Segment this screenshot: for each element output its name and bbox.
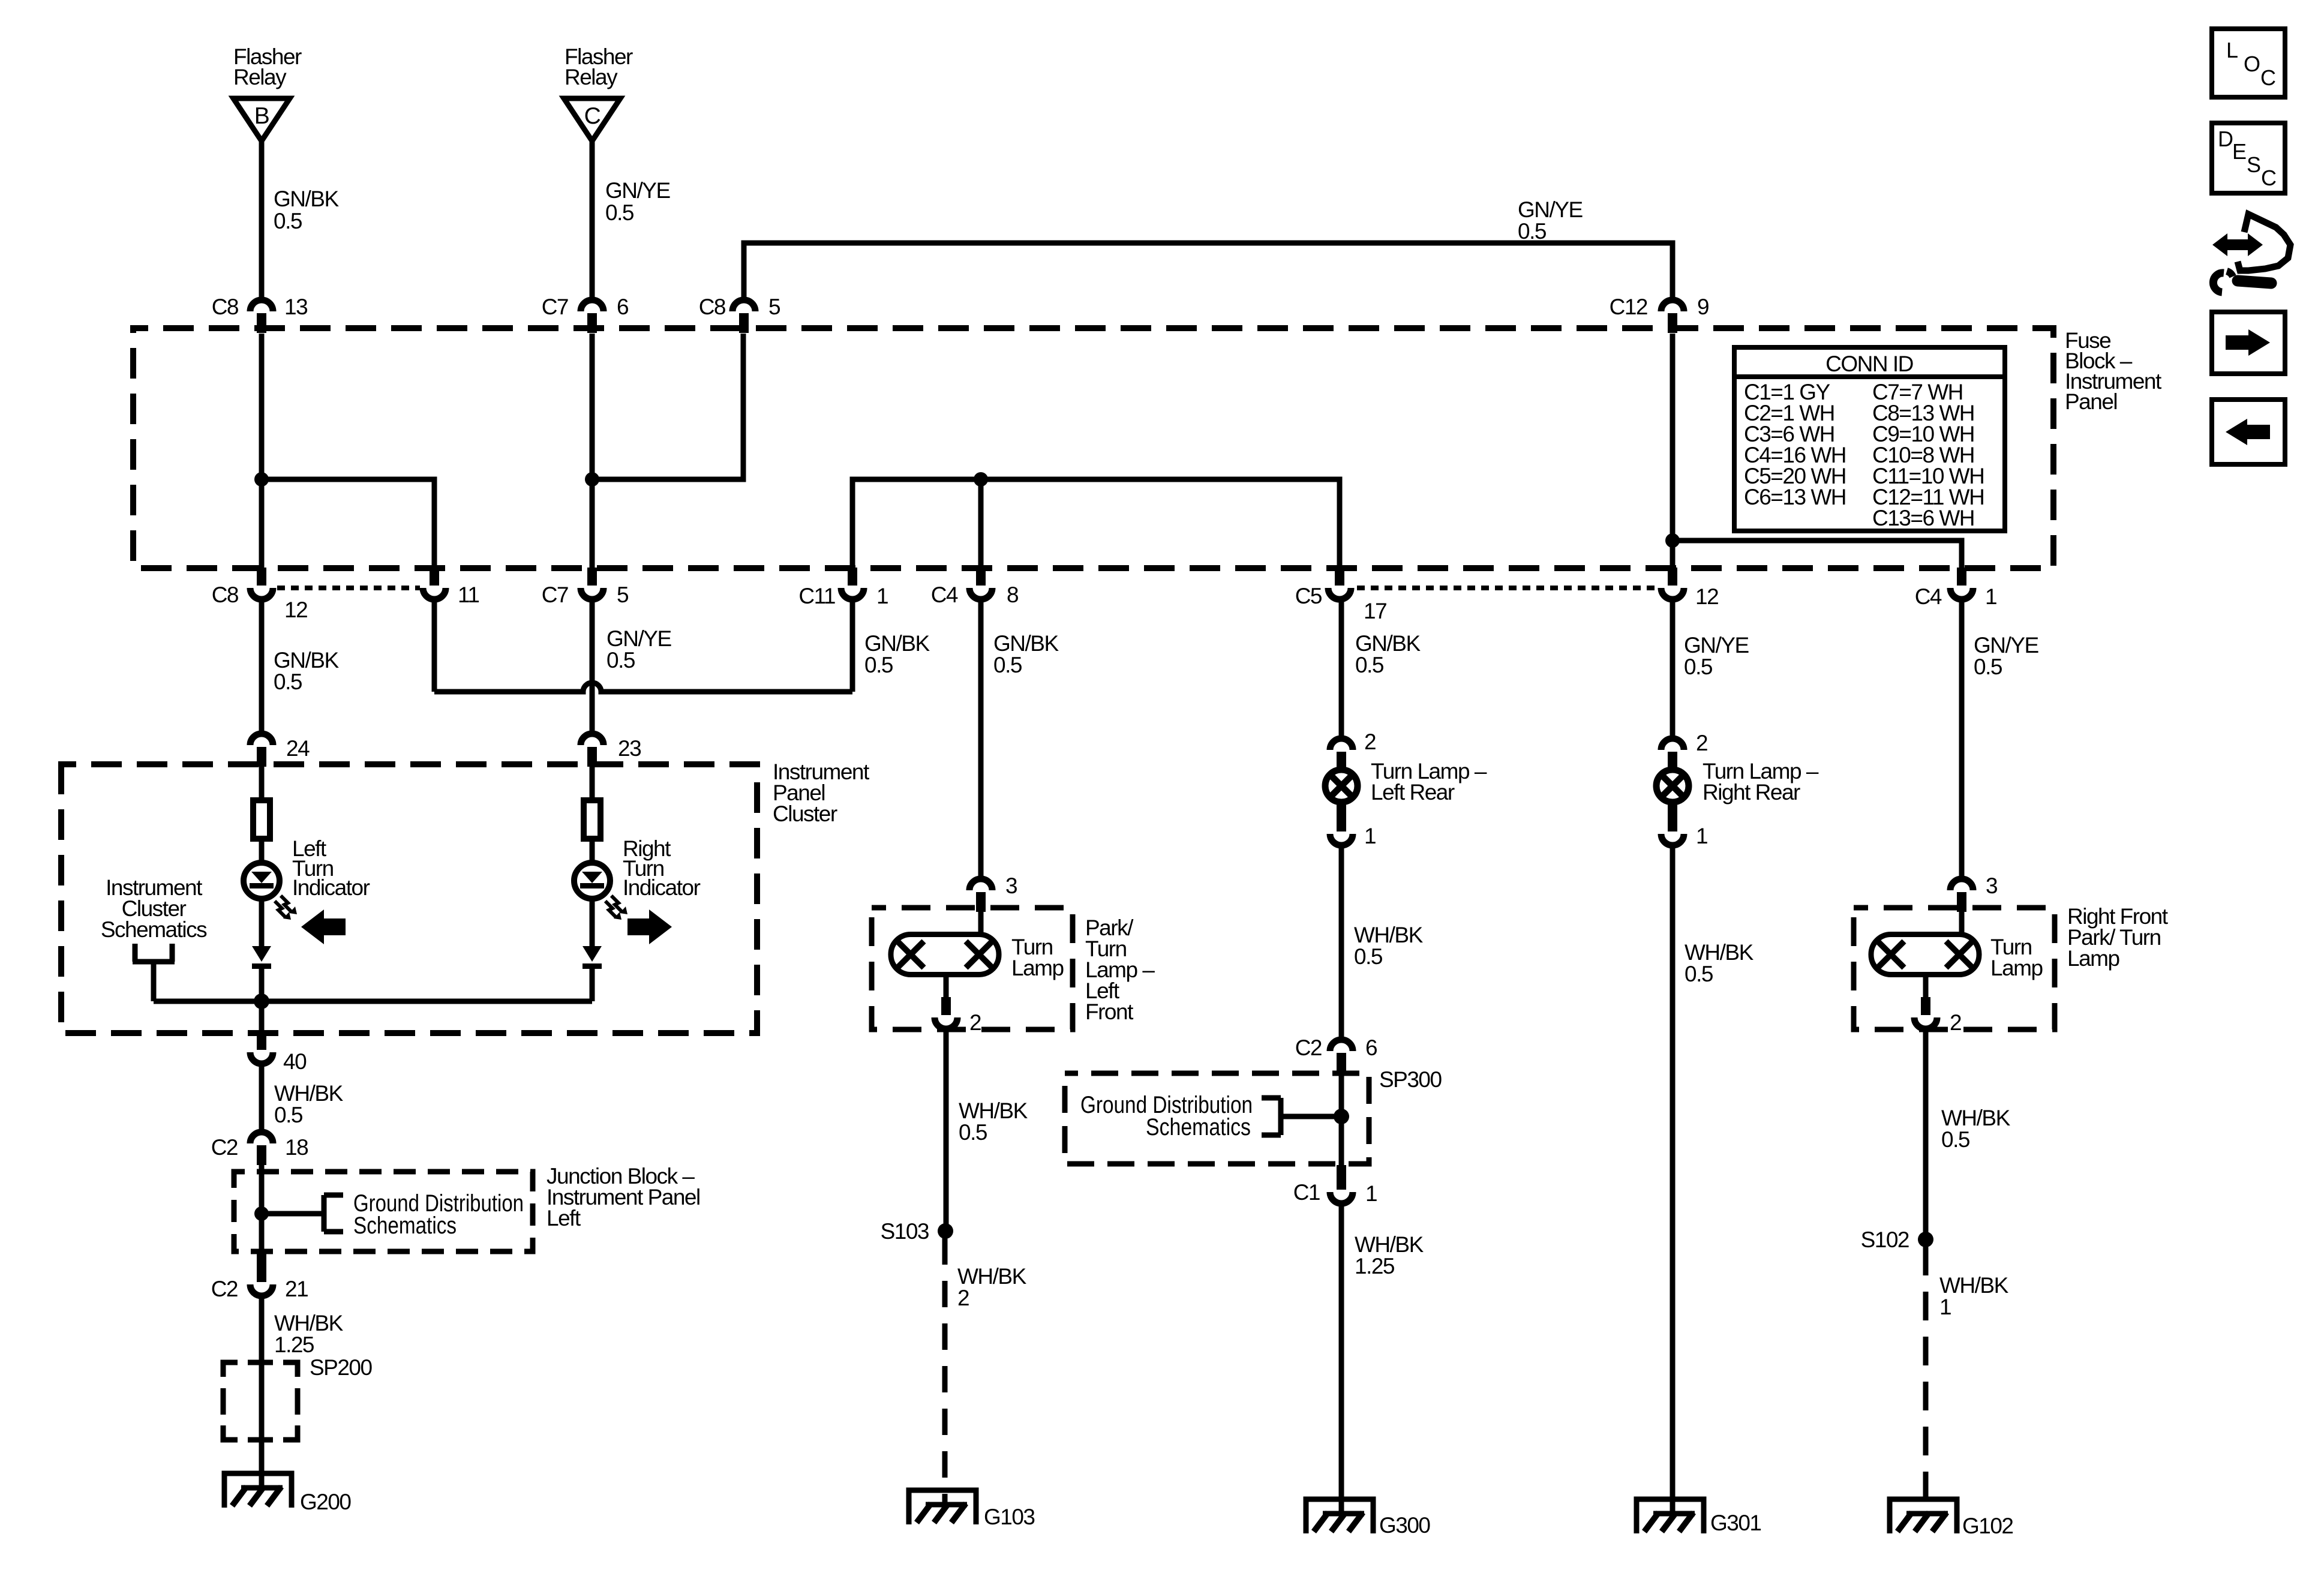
svg-text:Relay: Relay	[233, 65, 287, 89]
svg-text:D: D	[2218, 127, 2233, 151]
node junction on C8 column	[254, 472, 269, 487]
node splice S102	[1918, 1232, 1933, 1247]
svg-text:0.5: 0.5	[1685, 962, 1713, 986]
svg-text:S103: S103	[881, 1219, 929, 1244]
svg-text:C6=13 WH: C6=13 WH	[1744, 485, 1846, 509]
svg-text:0.5: 0.5	[1941, 1127, 1970, 1152]
svg-text:0.5: 0.5	[274, 209, 302, 233]
wire through junction block	[259, 1161, 265, 1254]
svg-text:3: 3	[1005, 873, 1017, 898]
node cluster bus junction	[254, 993, 269, 1009]
resistor right-turn	[584, 800, 600, 839]
connector pin 3 (left front)	[969, 879, 992, 890]
wire bracket stem	[151, 962, 157, 1001]
arrow left (turn direction)	[301, 909, 346, 944]
connector C7 pin 6	[581, 300, 603, 311]
wire lamp right front bottom	[1923, 977, 1929, 998]
node junction on C4 column	[974, 472, 988, 487]
connector pin 11	[430, 568, 439, 586]
svg-text:GN/BK: GN/BK	[274, 648, 339, 673]
turn lamp left rear bulb	[1325, 770, 1358, 802]
svg-text:WH/BK: WH/BK	[1939, 1273, 2009, 1298]
svg-text:C: C	[584, 103, 600, 129]
svg-text:WH/BK: WH/BK	[274, 1081, 344, 1106]
node splice S103	[938, 1223, 953, 1239]
ground G301	[1637, 1499, 1704, 1533]
connector pin 2 (right rear)	[1661, 739, 1684, 750]
park/turn lamp right front dashed box	[1854, 908, 2055, 1029]
svg-text:E: E	[2232, 139, 2246, 164]
LED right turn indicator	[574, 863, 610, 899]
svg-text:17: 17	[1364, 599, 1386, 623]
svg-text:GN/YE: GN/YE	[1974, 633, 2038, 658]
connector C2 pin 21	[257, 1251, 266, 1282]
wire fuse-block col C7-6/5	[590, 334, 595, 568]
connector C7 pin 5	[587, 568, 597, 586]
flasher relay C triangle	[564, 98, 620, 141]
svg-text:Left Rear: Left Rear	[1371, 780, 1455, 804]
svg-text:Right Rear: Right Rear	[1703, 780, 1800, 804]
svg-text:C7: C7	[542, 583, 568, 607]
svg-text:0.5: 0.5	[606, 648, 635, 673]
svg-text:C: C	[2261, 166, 2276, 190]
svg-text:1: 1	[1696, 824, 1707, 848]
wire pin3 into right lamp	[1959, 909, 1965, 935]
svg-text:2: 2	[957, 1286, 969, 1310]
wire pin11 drop	[432, 601, 437, 692]
svg-text:WH/BK: WH/BK	[957, 1264, 1027, 1289]
svg-text:8: 8	[1007, 583, 1018, 607]
dotted connector link C5-17 to 12	[1357, 586, 1656, 590]
node junction on C12 column	[1665, 533, 1680, 548]
svg-text:GN/BK: GN/BK	[993, 631, 1059, 656]
junction block dashed box	[234, 1172, 533, 1251]
wire right rear to G301	[1670, 847, 1676, 1514]
connector pin 40	[257, 1032, 266, 1050]
wire resistor to LED right	[590, 839, 595, 864]
turn lamp right rear bulb	[1656, 770, 1689, 802]
wire GN/YE from flasher C	[590, 141, 595, 299]
bracket ground distribution (SP300)	[1262, 1098, 1281, 1135]
wire C5-17 to lamp	[1339, 601, 1344, 736]
svg-text:0.5: 0.5	[1518, 219, 1547, 244]
svg-text:C: C	[2260, 65, 2275, 90]
svg-text:C8: C8	[699, 295, 725, 319]
svg-text:C5: C5	[1295, 584, 1322, 608]
svg-text:13: 13	[284, 295, 307, 319]
wire LED left to diode	[259, 897, 265, 946]
turn lamp left front stadium	[891, 935, 999, 975]
svg-text:1: 1	[876, 584, 888, 608]
wire fuse-block bus C11-C4-C5	[852, 479, 1340, 568]
connector pin 23	[581, 734, 603, 745]
svg-text:1: 1	[1939, 1295, 1951, 1319]
connector C5 pin 17	[1335, 568, 1344, 586]
park/turn lamp left front dashed box	[872, 908, 1073, 1029]
wire tap to bracket	[262, 1211, 324, 1217]
wire C7-5 to pin 23	[590, 601, 595, 732]
turn lamp right front stadium	[1871, 935, 1979, 975]
svg-text:0.5: 0.5	[1355, 653, 1384, 677]
icon hand/adjust	[2212, 233, 2263, 256]
svg-text:6: 6	[1365, 1035, 1377, 1060]
svg-text:0.5: 0.5	[274, 1103, 303, 1127]
svg-text:Cluster: Cluster	[773, 801, 837, 826]
connector pin 3 (right front)	[1950, 879, 1973, 890]
connector C11 pin 1	[848, 568, 857, 586]
svg-text:C8: C8	[212, 583, 238, 607]
svg-text:G300: G300	[1379, 1513, 1430, 1538]
wire C4-8 to pin 3	[978, 601, 984, 876]
svg-text:0.5: 0.5	[1684, 655, 1713, 679]
svg-text:SP300: SP300	[1379, 1067, 1442, 1092]
svg-text:0.5: 0.5	[993, 653, 1022, 677]
wire diode right to bus	[590, 968, 595, 1001]
svg-text:C8: C8	[212, 295, 238, 319]
svg-text:C13=6 WH: C13=6 WH	[1872, 506, 1974, 530]
connector C4 pin 8	[976, 568, 986, 586]
wire cluster ground bus	[154, 999, 592, 1004]
CONN ID table	[1734, 347, 2005, 531]
icon arrow-right box	[2212, 312, 2285, 374]
wire diode left to bus	[259, 968, 265, 1033]
svg-text:0.5: 0.5	[1974, 655, 2002, 679]
connector pin 2 (left front)	[941, 997, 951, 1015]
wire branch to pin 11	[262, 479, 434, 568]
svg-text:0.5: 0.5	[864, 653, 893, 677]
svg-text:5: 5	[768, 295, 780, 319]
ground G300	[1306, 1499, 1373, 1533]
svg-text:C2: C2	[211, 1135, 238, 1160]
diode right	[582, 946, 602, 962]
svg-text:WH/BK: WH/BK	[274, 1311, 344, 1335]
svg-text:Schematics: Schematics	[353, 1212, 457, 1239]
svg-text:G301: G301	[1710, 1511, 1761, 1535]
dotted connector link C8-12 to 11	[277, 586, 420, 590]
wire SP300 tap to bracket	[1281, 1114, 1341, 1119]
svg-text:C4: C4	[1915, 584, 1942, 609]
svg-text:WH/BK: WH/BK	[1354, 923, 1424, 947]
connector C8 pin 5	[732, 300, 755, 311]
svg-text:0.5: 0.5	[1354, 944, 1383, 969]
LED left light rays	[281, 896, 292, 912]
ground G200	[224, 1473, 292, 1508]
resistor left-turn	[253, 800, 270, 839]
splice SP300 dashed box	[1065, 1073, 1369, 1164]
svg-text:C2: C2	[211, 1277, 238, 1301]
svg-text:O: O	[2244, 52, 2260, 76]
wire S103 to G103 dashed	[942, 1238, 948, 1505]
arrow right (turn direction)	[627, 909, 672, 944]
ground G102	[1890, 1499, 1957, 1533]
wire branch to pin C8-5	[592, 334, 743, 479]
svg-text:C12: C12	[1610, 295, 1647, 319]
wire through SP300	[1339, 1071, 1344, 1165]
ground G103	[909, 1490, 976, 1524]
connector C2 pin 6	[1330, 1040, 1353, 1051]
svg-text:GN/YE: GN/YE	[605, 178, 670, 203]
splice SP200 dashed box	[223, 1362, 298, 1440]
wire 40 to C2-18	[259, 1065, 265, 1130]
flasher relay B triangle	[233, 98, 290, 141]
svg-text:11: 11	[458, 583, 479, 607]
svg-text:18: 18	[285, 1135, 308, 1160]
svg-text:12: 12	[284, 598, 307, 622]
connector pin 2 (left rear)	[1330, 739, 1353, 750]
svg-text:1: 1	[1985, 584, 1996, 609]
connector C1 pin 1	[1337, 1165, 1346, 1190]
wire GN/YE top jumper	[744, 243, 1673, 299]
connector C2 pin 18	[250, 1132, 273, 1143]
svg-text:24: 24	[286, 736, 310, 761]
pin stub above left rear bulb	[1337, 752, 1346, 771]
svg-text:CONN ID: CONN ID	[1825, 352, 1913, 376]
wire C1-1 to G300	[1339, 1205, 1344, 1514]
svg-text:2: 2	[1950, 1010, 1961, 1035]
wire pin23 to resistor	[590, 767, 595, 800]
svg-text:C7: C7	[542, 295, 568, 319]
svg-text:C2: C2	[1295, 1035, 1322, 1060]
svg-text:2: 2	[969, 1010, 981, 1035]
wire S102 to G102 dashed	[1923, 1247, 1929, 1512]
wire pin12 to lamp	[1670, 601, 1676, 736]
wire lamp left front bottom	[944, 977, 949, 998]
svg-text:GN/BK: GN/BK	[864, 631, 930, 656]
svg-text:Schematics: Schematics	[1146, 1114, 1251, 1140]
svg-text:5: 5	[617, 583, 629, 607]
svg-text:0.5: 0.5	[605, 200, 634, 225]
node junction block tap	[254, 1206, 269, 1221]
svg-text:C1: C1	[1293, 1180, 1320, 1205]
connector pin 12 (right)	[1668, 568, 1677, 586]
LED right light rays	[611, 896, 622, 912]
svg-text:WH/BK: WH/BK	[1355, 1232, 1424, 1257]
svg-text:1.25: 1.25	[1355, 1254, 1395, 1278]
wire resistor to LED left	[259, 839, 265, 864]
svg-text:S102: S102	[1861, 1227, 1909, 1252]
wire LED right to diode	[590, 897, 595, 946]
svg-text:Lamp: Lamp	[2067, 946, 2119, 971]
svg-text:WH/BK: WH/BK	[959, 1098, 1028, 1123]
wire pin2 to S102	[1923, 1031, 1929, 1232]
svg-text:1: 1	[1365, 1181, 1377, 1206]
fuse block - instrument panel dashed box	[133, 328, 2053, 568]
connector C12 pin 9	[1661, 300, 1684, 311]
svg-text:9: 9	[1697, 295, 1709, 319]
connector pin 1 (right rear)	[1668, 801, 1677, 831]
diode left	[252, 946, 271, 962]
svg-text:WH/BK: WH/BK	[1685, 940, 1754, 965]
svg-text:2: 2	[1696, 731, 1707, 755]
connector C8 pin 12	[257, 568, 266, 586]
svg-text:GN/YE: GN/YE	[1518, 197, 1583, 222]
svg-text:Left: Left	[547, 1206, 581, 1230]
connector pin 24	[250, 734, 273, 745]
svg-text:C11: C11	[798, 584, 835, 608]
svg-text:G102: G102	[1962, 1514, 2013, 1538]
wire C4-1 to pin 3	[1959, 601, 1965, 876]
svg-text:40: 40	[283, 1049, 307, 1074]
svg-text:S: S	[2247, 152, 2260, 177]
instrument panel cluster dashed box	[61, 764, 757, 1033]
svg-text:1.25: 1.25	[274, 1332, 314, 1357]
wire GN/BK from flasher B	[259, 141, 265, 299]
wire pin24 to resistor	[259, 767, 265, 800]
svg-text:C4: C4	[931, 583, 958, 607]
svg-text:3: 3	[1986, 873, 1997, 898]
connector pin 1 (left rear)	[1337, 801, 1346, 831]
connector pin 2 (right front)	[1921, 997, 1930, 1015]
svg-text:GN/BK: GN/BK	[274, 187, 339, 211]
LED left turn indicator	[244, 863, 280, 899]
wire C11-1 drop	[850, 601, 855, 692]
wire pin2 to S103	[944, 1031, 949, 1231]
wire C8-12 to pin 24	[259, 601, 265, 732]
svg-text:0.5: 0.5	[274, 670, 302, 694]
wire fuse-block col C12-9/12	[1670, 334, 1676, 568]
svg-text:6: 6	[617, 295, 628, 319]
wire pin3 into lamp	[978, 909, 984, 935]
wire branch to pin C4-1	[1673, 541, 1962, 568]
svg-text:Indicator: Indicator	[292, 875, 370, 900]
svg-text:G103: G103	[984, 1505, 1035, 1529]
svg-text:SP200: SP200	[310, 1355, 373, 1380]
svg-text:Lamp: Lamp	[1990, 956, 2043, 980]
svg-text:Panel: Panel	[2065, 389, 2117, 414]
svg-text:Schematics: Schematics	[101, 917, 207, 942]
svg-text:Lamp: Lamp	[1011, 956, 1064, 980]
connector C8 pin 13	[250, 300, 273, 311]
wire fuse-block col C8-13/12	[259, 334, 265, 568]
svg-text:12: 12	[1695, 584, 1718, 609]
svg-text:1: 1	[1364, 824, 1376, 848]
svg-text:21: 21	[285, 1277, 308, 1301]
node SP300 tap	[1334, 1109, 1349, 1124]
svg-text:L: L	[2226, 38, 2238, 62]
svg-text:WH/BK: WH/BK	[1941, 1106, 2011, 1130]
bracket ground distribution (junction block)	[324, 1195, 343, 1232]
bracket instrument cluster schematics	[133, 944, 175, 962]
svg-text:2: 2	[1364, 730, 1376, 754]
node junction on C7 column	[585, 472, 599, 487]
icon DESC box	[2212, 123, 2285, 193]
wire left rear to C2-6	[1339, 847, 1344, 1037]
icon arrow-left box	[2212, 400, 2285, 464]
svg-text:Indicator: Indicator	[623, 875, 701, 900]
svg-text:Front: Front	[1085, 999, 1134, 1024]
pin stub above right rear bulb	[1668, 752, 1677, 771]
wire C4 column drop	[978, 479, 984, 568]
svg-text:GN/BK: GN/BK	[1355, 631, 1421, 656]
svg-text:0.5: 0.5	[959, 1120, 987, 1145]
svg-text:GN/YE: GN/YE	[1684, 633, 1749, 658]
svg-text:GN/YE: GN/YE	[606, 626, 671, 651]
connector C4 pin 1	[1957, 568, 1966, 586]
svg-text:G200: G200	[300, 1490, 351, 1514]
svg-text:B: B	[254, 103, 269, 129]
svg-text:23: 23	[618, 736, 641, 761]
icon LOC box	[2212, 29, 2285, 97]
wire link 11 to C11 with hop	[434, 683, 852, 692]
svg-text:Relay: Relay	[565, 65, 618, 89]
wire C2-21 to ground	[259, 1298, 265, 1488]
